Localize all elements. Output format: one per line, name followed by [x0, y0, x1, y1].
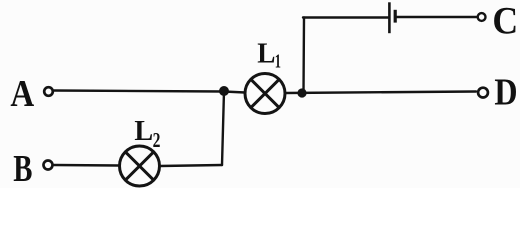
svg-text:1: 1: [275, 52, 281, 73]
svg-text:D: D: [494, 72, 517, 114]
svg-text:2: 2: [153, 128, 161, 152]
svg-text:A: A: [10, 73, 34, 115]
svg-text:L: L: [257, 39, 275, 70]
svg-text:L: L: [134, 115, 153, 147]
svg-text:C: C: [492, 0, 518, 43]
svg-text:B: B: [13, 148, 32, 188]
